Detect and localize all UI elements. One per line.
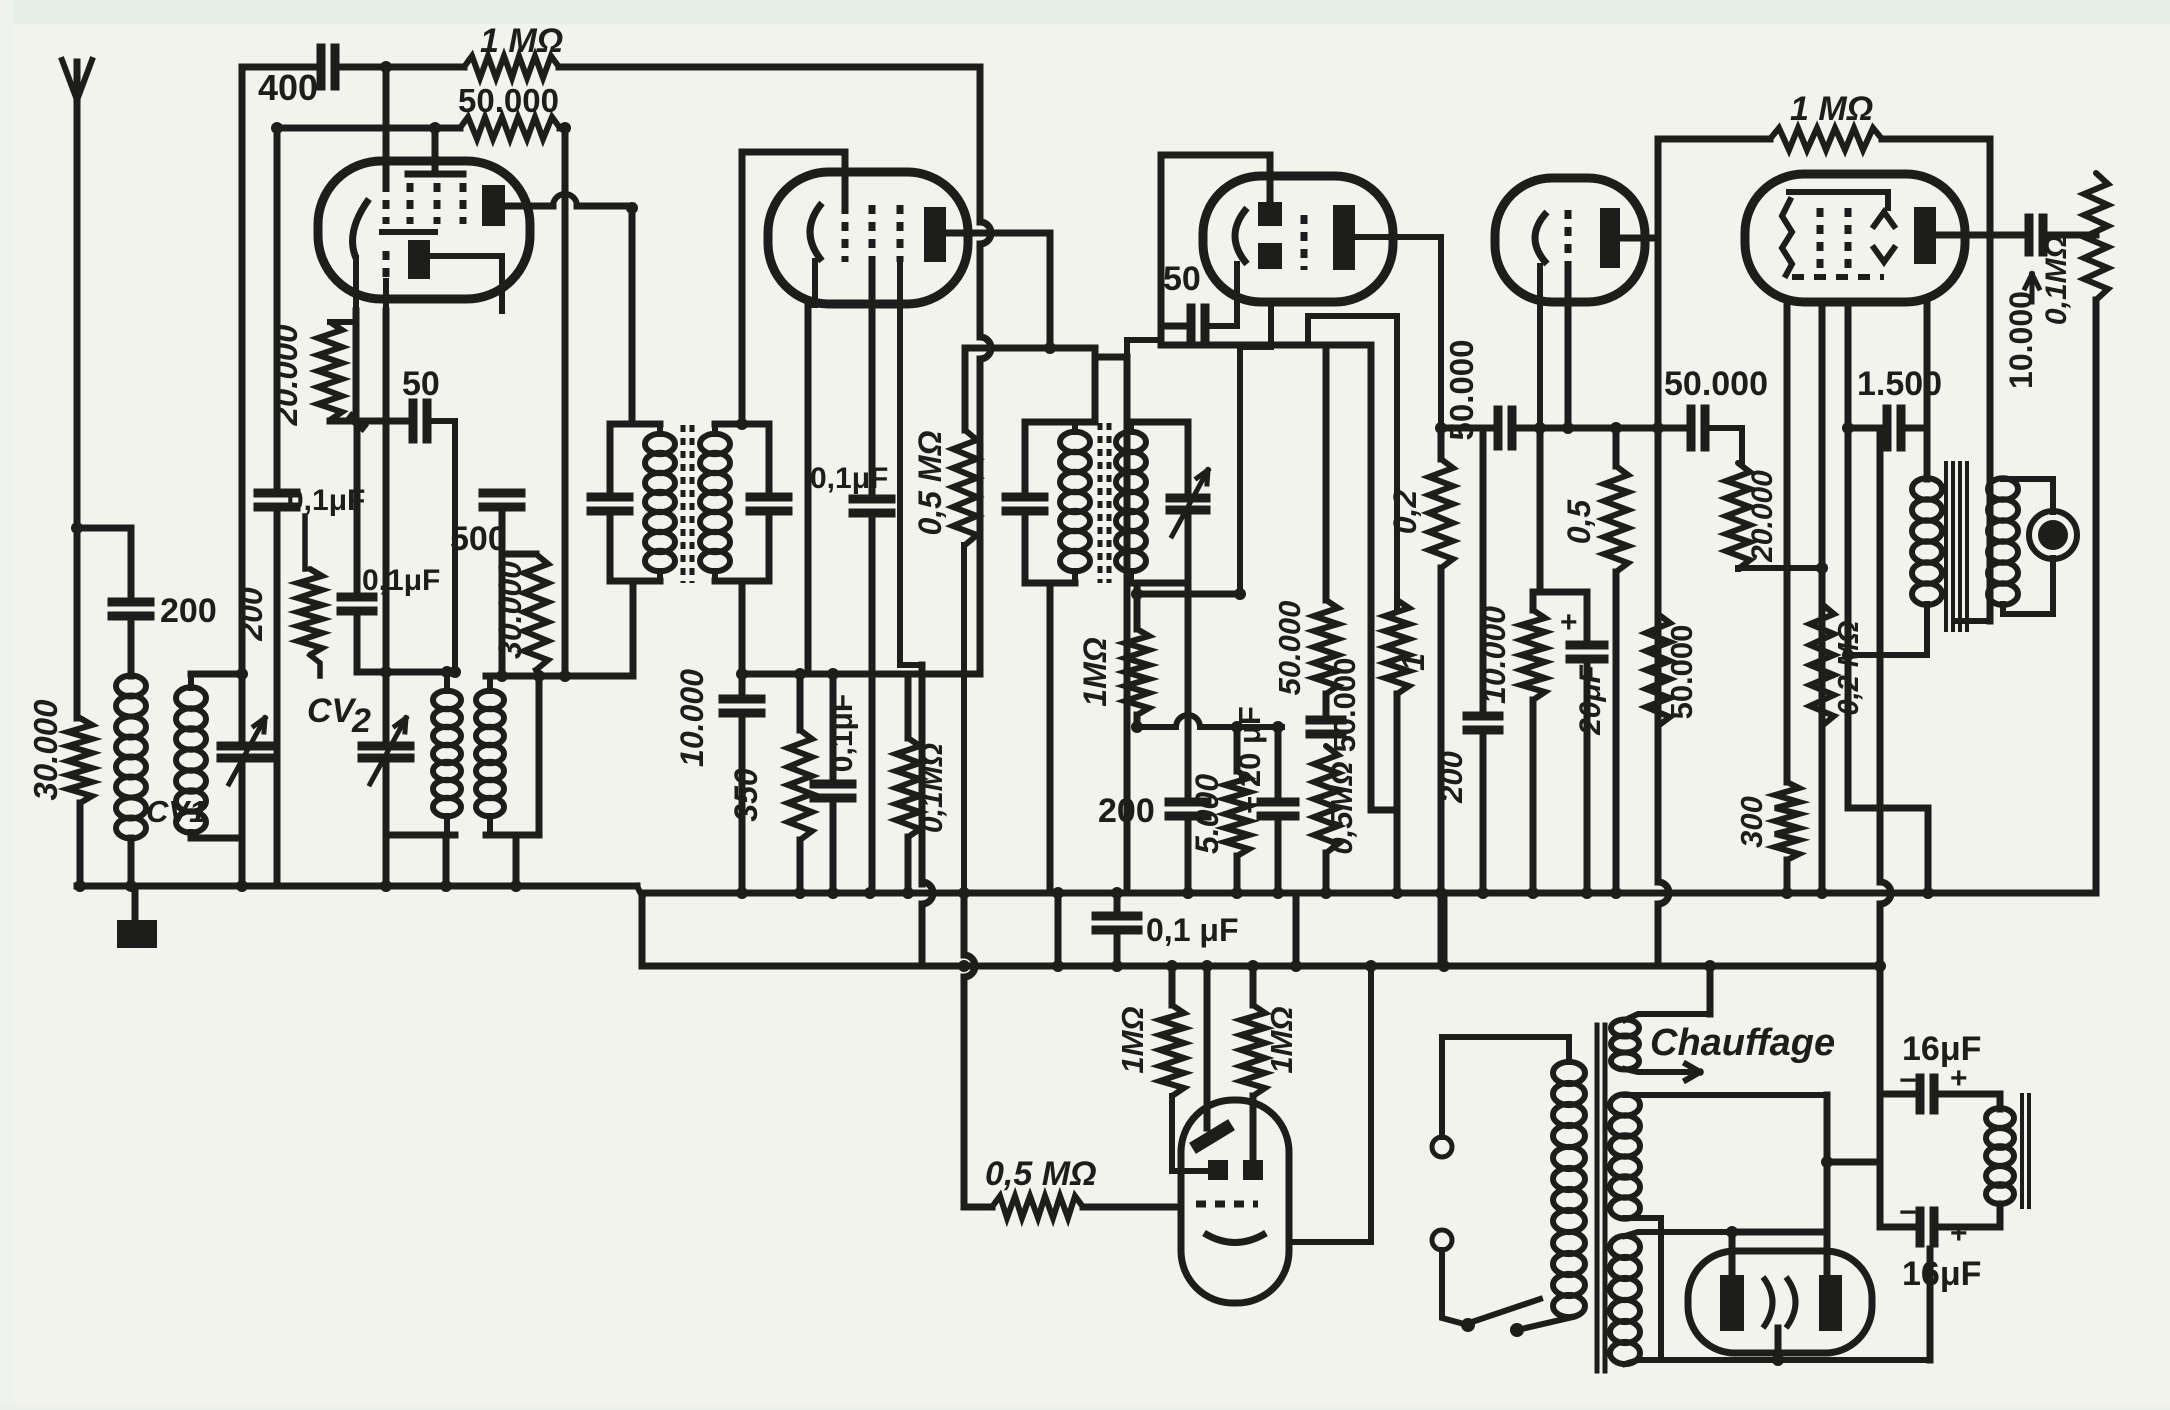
svg-text:200: 200 bbox=[1434, 751, 1469, 804]
svg-text:0,2: 0,2 bbox=[1387, 490, 1423, 535]
svg-text:−: − bbox=[1899, 1064, 1917, 1097]
svg-text:+: + bbox=[1950, 1217, 1968, 1250]
svg-text:5.000: 5.000 bbox=[1189, 774, 1225, 854]
svg-text:0,5 MΩ: 0,5 MΩ bbox=[985, 1155, 1097, 1193]
svg-text:50.000: 50.000 bbox=[1664, 365, 1768, 403]
svg-text:2: 2 bbox=[351, 702, 371, 740]
svg-text:500: 500 bbox=[450, 520, 507, 558]
svg-text:CV: CV bbox=[307, 692, 358, 730]
svg-text:0,1MΩ: 0,1MΩ bbox=[916, 743, 949, 833]
svg-text:+: + bbox=[1560, 606, 1578, 639]
svg-text:+: + bbox=[1950, 1062, 1968, 1095]
svg-text:0,5: 0,5 bbox=[1561, 499, 1597, 545]
svg-text:−: − bbox=[1899, 1196, 1917, 1229]
svg-text:200: 200 bbox=[233, 587, 269, 642]
svg-text:50: 50 bbox=[402, 365, 440, 403]
svg-text:10.000: 10.000 bbox=[2003, 291, 2039, 389]
svg-text:16μF: 16μF bbox=[1902, 1255, 1981, 1293]
svg-text:0,1μF: 0,1μF bbox=[362, 564, 440, 597]
svg-text:1MΩ: 1MΩ bbox=[1077, 637, 1113, 706]
svg-text:300: 300 bbox=[1734, 796, 1769, 848]
svg-text:400: 400 bbox=[258, 67, 318, 108]
svg-text:1MΩ: 1MΩ bbox=[1264, 1006, 1299, 1073]
svg-text:0,1MΩ: 0,1MΩ bbox=[2040, 235, 2073, 325]
svg-text:0,1μF: 0,1μF bbox=[826, 694, 859, 772]
svg-text:1: 1 bbox=[1395, 653, 1431, 671]
svg-text:50: 50 bbox=[1163, 260, 1201, 298]
svg-text:10.000: 10.000 bbox=[674, 669, 710, 767]
svg-text:350: 350 bbox=[728, 768, 764, 822]
svg-text:200: 200 bbox=[160, 592, 217, 630]
svg-text:0,5 MΩ: 0,5 MΩ bbox=[912, 430, 948, 535]
svg-text:50.000: 50.000 bbox=[1327, 658, 1362, 753]
svg-text:30.000: 30.000 bbox=[27, 699, 64, 801]
svg-text:1 MΩ: 1 MΩ bbox=[1790, 90, 1873, 128]
svg-text:50.000: 50.000 bbox=[1272, 601, 1307, 696]
svg-text:10.000: 10.000 bbox=[1476, 606, 1512, 704]
svg-text:1MΩ: 1MΩ bbox=[1115, 1006, 1150, 1073]
svg-text:20.000: 20.000 bbox=[1746, 470, 1779, 563]
svg-text:0,1 μF: 0,1 μF bbox=[1146, 912, 1239, 948]
svg-text:0,1μF: 0,1μF bbox=[810, 462, 888, 495]
svg-text:Chauffage: Chauffage bbox=[1650, 1022, 1835, 1064]
svg-text:50.000: 50.000 bbox=[458, 82, 559, 119]
svg-text:CV1: CV1 bbox=[146, 794, 206, 829]
svg-text:20.000: 20.000 bbox=[267, 324, 304, 427]
svg-text:30.000: 30.000 bbox=[492, 561, 528, 659]
svg-text:0,5MΩ: 0,5MΩ bbox=[1324, 761, 1359, 854]
svg-text:1 MΩ: 1 MΩ bbox=[480, 22, 563, 60]
svg-text:50.000: 50.000 bbox=[1664, 625, 1699, 720]
svg-text:16μF: 16μF bbox=[1902, 1030, 1981, 1068]
